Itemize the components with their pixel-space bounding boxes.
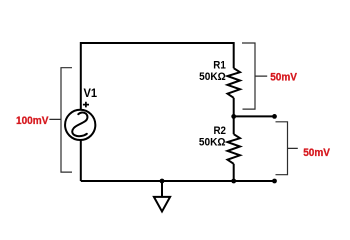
node junction ground stub (160, 179, 165, 184)
node junction R2-ground rail (231, 179, 236, 184)
wire R1 bottom lead (233, 98, 235, 117)
voltage source V1 (AC) (65, 110, 95, 140)
wire left (V1 branch vertical) (80, 42, 82, 181)
svg-text:50mV: 50mV (270, 72, 297, 84)
plus sign of V1 (83, 102, 89, 108)
measurement bracket R1 (50mV) (242, 43, 267, 109)
wire bottom (ground rail) (81, 180, 275, 182)
node junction R1-R2 (231, 114, 236, 119)
measurement bracket V1 (100mV) (49, 68, 72, 172)
resistor R2 (228, 134, 241, 164)
resistor R1 (228, 68, 241, 98)
measurement bracket R2 (50mV) (276, 122, 298, 175)
svg-text:R1: R1 (213, 60, 226, 72)
wire top (V1+ to R1 top) (81, 42, 234, 44)
svg-text:50KΩ: 50KΩ (199, 71, 226, 83)
wire R2 bottom lead (233, 164, 235, 181)
svg-text:50mV: 50mV (303, 147, 330, 159)
node probe bottom right (272, 179, 277, 184)
node probe top right (272, 114, 277, 119)
svg-text:V1: V1 (84, 86, 98, 100)
wire node mid (R1/R2 junction to probe point) (234, 115, 275, 117)
svg-text:100mV: 100mV (16, 115, 49, 127)
ground symbol (154, 197, 170, 212)
wire R2 top lead (233, 116, 235, 134)
wire R1 top lead (233, 42, 235, 68)
svg-text:50KΩ: 50KΩ (199, 137, 226, 149)
wire ground stub (161, 181, 163, 197)
svg-text:R2: R2 (214, 125, 227, 137)
